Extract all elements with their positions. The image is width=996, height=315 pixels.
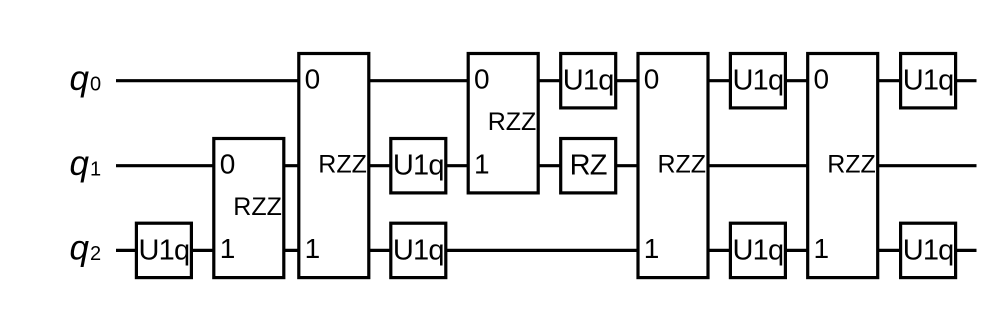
svg-text:RZZ: RZZ (827, 151, 876, 179)
gate U1q on q2 (column L4b) (391, 223, 446, 277)
svg-text:1: 1 (644, 233, 660, 264)
svg-text:RZZ: RZZ (318, 151, 367, 179)
svg-text:1: 1 (305, 233, 321, 264)
svg-text:U1q: U1q (732, 65, 783, 97)
gate RZZ on q1,q2 (column L2) (214, 139, 284, 278)
svg-text:RZZ: RZZ (233, 193, 282, 221)
svg-text:q2: q2 (70, 229, 102, 268)
svg-text:U1q: U1q (393, 234, 444, 266)
gate RZZ on q0,q1 (column L5) (468, 54, 538, 193)
gate RZ on q1 (column L6b) (561, 139, 616, 193)
gate RZZ on q0,q2 (column L3) (299, 54, 369, 278)
svg-text:q1: q1 (70, 144, 102, 183)
svg-text:1: 1 (220, 233, 236, 264)
gate RZZ on q0,q2 (column L7) (638, 54, 708, 278)
gate U1q on q2 (column L8b) (730, 223, 785, 277)
gate U1q on q2 (column L10b) (901, 223, 956, 277)
svg-text:U1q: U1q (138, 234, 189, 266)
gate U1q on q0 (column L6) (561, 54, 616, 108)
gate U1q on q0 (column L8) (730, 54, 785, 108)
svg-text:1: 1 (814, 233, 830, 264)
svg-text:1: 1 (474, 148, 490, 179)
svg-text:0: 0 (814, 63, 830, 94)
svg-text:0: 0 (305, 63, 321, 94)
svg-text:q0: q0 (70, 59, 102, 98)
wire q1 (116, 164, 977, 167)
svg-text:U1q: U1q (903, 234, 954, 266)
gate RZZ on q0,q2 (column L9) (808, 54, 878, 278)
svg-text:RZ: RZ (570, 150, 607, 182)
svg-text:0: 0 (474, 63, 490, 94)
svg-text:0: 0 (644, 63, 660, 94)
wire q2 (116, 249, 977, 252)
svg-text:RZZ: RZZ (657, 151, 706, 179)
gate U1q on q1 (column L4) (391, 139, 446, 193)
gate U1q on q0 (column L10) (901, 54, 956, 108)
svg-text:U1q: U1q (393, 150, 444, 182)
wire q0 (116, 79, 977, 82)
svg-text:U1q: U1q (732, 234, 783, 266)
gate U1q on q2 (column L1) (136, 223, 191, 277)
svg-text:U1q: U1q (563, 65, 614, 97)
svg-text:RZZ: RZZ (488, 108, 537, 136)
svg-text:0: 0 (220, 148, 236, 179)
svg-text:U1q: U1q (903, 65, 954, 97)
